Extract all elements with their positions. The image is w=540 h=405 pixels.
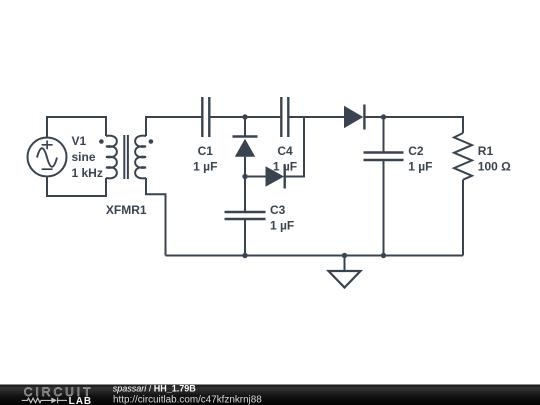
wire C2 to bottom rail: [383, 160, 385, 256]
wire V1 top: [47, 117, 106, 138]
wire node B to D2: [245, 176, 266, 178]
diode D3: [344, 105, 364, 130]
footer bar: [0, 385, 540, 405]
svg-text:1 µF: 1 µF: [408, 159, 432, 173]
svg-text:C3: C3: [270, 203, 286, 217]
svg-text:1 kHz: 1 kHz: [72, 166, 103, 180]
wire V1 bottom: [47, 177, 106, 197]
ground: [329, 256, 361, 288]
node B junction: [242, 174, 247, 179]
capacitor C2: [364, 153, 404, 161]
transformer XFMR1: [99, 135, 153, 179]
wire D2 cathode up to C4-D3 net: [285, 117, 304, 177]
CircuitLab logo schematic squiggle: [22, 398, 67, 404]
node C junction: [381, 114, 386, 119]
wire secondary bottom: [146, 178, 166, 256]
wire C3 to bottom rail: [244, 219, 246, 256]
wire node C to C2: [383, 117, 385, 153]
svg-text:1 µF: 1 µF: [193, 159, 217, 173]
wire D3 to node C: [364, 116, 384, 118]
wire node C to R1: [384, 117, 464, 133]
svg-text:1 µF: 1 µF: [273, 159, 297, 173]
svg-text:LAB: LAB: [69, 396, 93, 405]
node ground junction: [342, 253, 347, 258]
capacitor C4: [281, 97, 288, 137]
diode D1: [233, 137, 258, 157]
node C2-ground junction: [381, 253, 386, 258]
svg-text:XFMR1: XFMR1: [106, 203, 147, 217]
wire bottom rail: [166, 255, 464, 257]
capacitor C3: [225, 212, 266, 219]
svg-text:C2: C2: [408, 144, 424, 158]
svg-text:C1: C1: [198, 144, 214, 158]
svg-text:V1: V1: [72, 134, 87, 148]
svg-text:R1: R1: [478, 144, 494, 158]
svg-text:http://circuitlab.com/c47kfznk: http://circuitlab.com/c47kfznkrnj88: [113, 394, 262, 405]
node A junction: [242, 114, 247, 119]
svg-text:1 µF: 1 µF: [270, 219, 294, 233]
wire node A to C4: [245, 116, 281, 118]
diode D2: [266, 165, 285, 189]
wire C1 to node A: [209, 116, 245, 118]
node C3-ground junction: [242, 253, 247, 258]
wire D1 to node B: [244, 157, 246, 177]
wire node B to C3: [244, 177, 246, 213]
wire secondary top to C1: [146, 117, 202, 136]
svg-text:100 Ω: 100 Ω: [478, 159, 511, 173]
voltage source V1: [28, 138, 67, 177]
svg-text:C4: C4: [277, 144, 293, 158]
capacitor C1: [202, 97, 209, 137]
wire node A to D1: [244, 117, 246, 137]
svg-text:spassari / HH_1.79B: spassari / HH_1.79B: [113, 384, 197, 394]
wire R1 bottom: [462, 180, 464, 256]
svg-text:sine: sine: [72, 150, 96, 164]
resistor R1: [454, 133, 472, 180]
wire C4 to D3: [288, 116, 344, 118]
